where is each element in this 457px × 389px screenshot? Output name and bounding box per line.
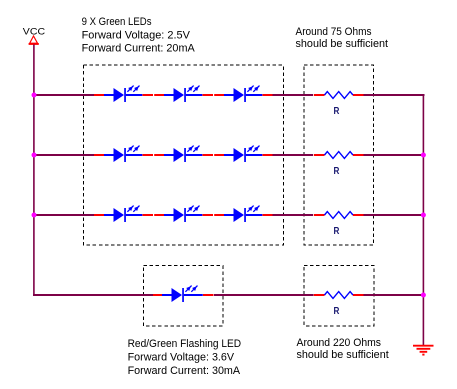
svg-text:R: R [334, 306, 341, 317]
junction: VCC rail row 3 [32, 213, 37, 218]
junction: VCC rail row 1 [32, 93, 37, 98]
note: around 220 ohms [297, 337, 389, 361]
wire: row 3 resistor to right rail [364, 214, 425, 216]
wire: row 2 LED3 to resistor [263, 154, 314, 156]
svg-text:Forward Current: 20mA: Forward Current: 20mA [82, 43, 196, 55]
LED D7 [104, 206, 142, 222]
svg-text:Red/Green Flashing LED: Red/Green Flashing LED [128, 338, 242, 350]
wire: flashing LED to 220 ohm resistor [203, 294, 314, 296]
resistor R4 [314, 292, 364, 318]
svg-text:VCC: VCC [23, 26, 45, 37]
wire: row 1 LED3 to resistor [263, 94, 314, 96]
svg-text:Around 75 Ohms: Around 75 Ohms [296, 26, 372, 38]
wire: row 2 LED2-LED3 [203, 154, 225, 156]
svg-text:should be sufficient: should be sufficient [296, 38, 389, 50]
wire: right vertical rail to ground [422, 94, 424, 346]
power VCC [23, 26, 45, 45]
junction: VCC rail row 2 [32, 153, 37, 158]
svg-text:R: R [334, 226, 341, 237]
wire: row 1 LED2-LED3 [203, 94, 225, 96]
wire: VCC rail to LED row 1 [34, 94, 104, 96]
wire: 220 ohm resistor to right rail [364, 294, 425, 296]
junction: right rail row 2 [421, 153, 426, 158]
LED D1 [104, 86, 142, 102]
junction: right rail row 3 [421, 213, 426, 218]
wire: VCC rail to LED row 3 [34, 214, 104, 216]
wire: VCC rail to flashing LED [33, 294, 164, 296]
wire: row 1 LED1-LED2 [143, 94, 165, 96]
wire: VCC vertical rail [33, 45, 35, 296]
note: around 75 ohms [296, 26, 389, 50]
svg-text:9 X Green LEDs: 9 X Green LEDs [82, 16, 152, 28]
svg-text:Around 220 Ohms: Around 220 Ohms [297, 337, 382, 349]
dashed annotation box around 9 green LEDs [84, 65, 284, 245]
resistor R2 [314, 152, 364, 178]
svg-text:Forward Current: 30mA: Forward Current: 30mA [128, 365, 241, 377]
dashed annotation box around 220 ohm resistor [304, 266, 374, 327]
note: 9 X Green LEDs specs [82, 16, 196, 55]
LED D2 [164, 86, 202, 102]
LED D3 [224, 86, 262, 102]
wire: row 1 resistor to right rail [364, 94, 425, 96]
wire: row 3 LED3 to resistor [263, 214, 314, 216]
svg-text:should be sufficient: should be sufficient [297, 349, 389, 361]
svg-text:R: R [334, 106, 341, 117]
LED D6 [224, 146, 262, 162]
wire: row 3 LED2-LED3 [203, 214, 225, 216]
wire: VCC rail to LED row 2 [34, 154, 104, 156]
svg-text:Forward Voltage: 3.6V: Forward Voltage: 3.6V [128, 351, 235, 363]
LED D5 [164, 146, 202, 162]
LED D4 [104, 146, 142, 162]
note: flashing LED specs [128, 338, 242, 377]
resistor R3 [314, 212, 364, 238]
junction: right rail bottom row [421, 293, 426, 298]
LED D8 [164, 206, 202, 222]
svg-text:Forward Voltage: 2.5V: Forward Voltage: 2.5V [82, 29, 191, 41]
resistor R1 [314, 92, 364, 118]
dashed annotation box around 3 series resistors [304, 65, 374, 245]
LED D9 [224, 206, 262, 222]
wire: row 3 LED1-LED2 [143, 214, 165, 216]
dashed annotation box around flashing LED [144, 266, 224, 327]
wire: row 2 LED1-LED2 [143, 154, 165, 156]
LED D10 [162, 286, 203, 302]
ground [413, 346, 434, 355]
svg-text:R: R [334, 166, 341, 177]
wire: row 2 resistor to right rail [364, 154, 425, 156]
